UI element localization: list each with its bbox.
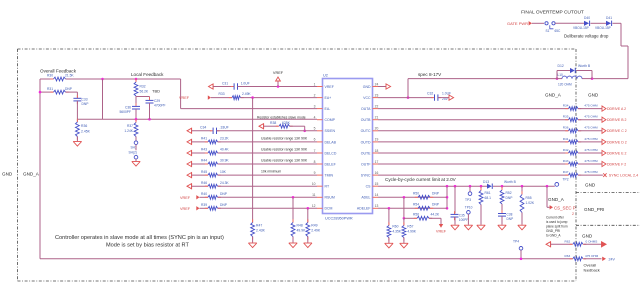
svg-text:Wurth B: Wurth B xyxy=(504,180,517,184)
svg-text:6: 6 xyxy=(314,138,316,142)
svg-text:475 OHM: 475 OHM xyxy=(584,104,598,108)
svg-text:SS/EN: SS/EN xyxy=(325,129,336,133)
svg-text:U2: U2 xyxy=(323,74,328,78)
svg-text:44.2K: 44.2K xyxy=(431,213,440,217)
svg-text:2.49K: 2.49K xyxy=(311,229,321,233)
svg-text:120 OHM: 120 OHM xyxy=(558,83,572,87)
svg-text:2: 2 xyxy=(572,212,574,216)
svg-text:GND: GND xyxy=(585,182,596,187)
svg-text:5600PF: 5600PF xyxy=(119,110,131,114)
svg-text:OUTA: OUTA xyxy=(361,107,371,111)
svg-text:C33: C33 xyxy=(82,98,88,102)
svg-text:VREF: VREF xyxy=(180,196,191,200)
svg-text:475 OHM: 475 OHM xyxy=(584,126,598,130)
svg-text:2.49K: 2.49K xyxy=(242,92,251,96)
svg-text:R61: R61 xyxy=(485,191,491,195)
svg-text:R37: R37 xyxy=(127,124,133,128)
svg-text:C36: C36 xyxy=(125,105,131,109)
svg-text:is used to jump: is used to jump xyxy=(546,220,568,224)
svg-text:VREF: VREF xyxy=(325,85,334,89)
svg-text:21: 21 xyxy=(375,116,379,120)
svg-text:GATE PWR: GATE PWR xyxy=(507,21,528,26)
svg-text:11: 11 xyxy=(312,193,316,197)
svg-text:Usable resistor range 13K 90K: Usable resistor range 13K 90K xyxy=(261,137,308,141)
svg-text:DDRIVE D 2: DDRIVE D 2 xyxy=(607,140,627,144)
svg-text:23: 23 xyxy=(375,93,379,97)
svg-text:Mode is set by bias resistor a: Mode is set by bias resistor at RT xyxy=(106,242,189,248)
svg-text:D40: D40 xyxy=(584,16,590,20)
svg-text:625K: 625K xyxy=(282,121,291,125)
svg-text:10k minimum: 10k minimum xyxy=(261,170,281,174)
svg-text:DNP: DNP xyxy=(220,192,228,196)
svg-text:R48: R48 xyxy=(297,223,303,227)
svg-text:56.2K: 56.2K xyxy=(140,90,149,94)
svg-text:Current offer: Current offer xyxy=(546,216,565,220)
svg-text:S1: S1 xyxy=(546,29,550,33)
svg-text:R36: R36 xyxy=(563,126,569,130)
svg-text:OUTF: OUTF xyxy=(361,162,371,166)
svg-text:475 OHM: 475 OHM xyxy=(584,170,598,174)
svg-text:R44: R44 xyxy=(201,159,207,163)
svg-text:SYNC: SYNC xyxy=(361,174,371,178)
svg-text:DNP: DNP xyxy=(506,196,514,200)
svg-text:R56: R56 xyxy=(413,213,419,217)
svg-text:24.3K: 24.3K xyxy=(220,181,229,185)
svg-text:EA+: EA+ xyxy=(325,96,332,100)
svg-text:DELCD: DELCD xyxy=(325,151,337,155)
svg-text:10K: 10K xyxy=(220,170,227,174)
svg-text:DDRIVE E 2: DDRIVE E 2 xyxy=(607,151,627,155)
svg-text:R34: R34 xyxy=(563,104,569,108)
svg-text:TP10: TP10 xyxy=(465,205,473,209)
svg-text:13: 13 xyxy=(375,204,379,208)
svg-text:FINAL OVERTEMP CUTOUT: FINAL OVERTEMP CUTOUT xyxy=(521,10,584,16)
svg-text:VBOU-15P: VBOU-15P xyxy=(595,26,611,30)
svg-text:VREF: VREF xyxy=(273,71,284,75)
svg-text:GND_A: GND_A xyxy=(548,197,565,202)
svg-text:Resistor establishes slave mod: Resistor establishes slave mode xyxy=(257,115,306,119)
svg-text:.33UF: .33UF xyxy=(220,125,229,129)
svg-text:R38: R38 xyxy=(270,121,276,125)
svg-text:R32: R32 xyxy=(140,85,146,89)
svg-text:475 OHM: 475 OHM xyxy=(584,137,598,141)
svg-text:475 OHM: 475 OHM xyxy=(584,148,598,152)
svg-text:GND: GND xyxy=(588,93,599,98)
svg-text:R42: R42 xyxy=(563,148,569,152)
svg-text:16: 16 xyxy=(375,171,379,175)
svg-text:12: 12 xyxy=(312,204,316,208)
svg-text:R41: R41 xyxy=(201,137,207,141)
svg-text:CS_SEC P: CS_SEC P xyxy=(554,205,576,210)
svg-text:40.4K: 40.4K xyxy=(220,148,229,152)
svg-text:19: 19 xyxy=(375,138,379,142)
svg-text:GND: GND xyxy=(2,172,13,177)
svg-text:R30: R30 xyxy=(47,73,53,77)
svg-text:17: 17 xyxy=(375,160,379,164)
svg-text:OUTC: OUTC xyxy=(361,129,371,133)
svg-text:DNP: DNP xyxy=(432,203,440,207)
svg-text:9: 9 xyxy=(314,171,316,175)
svg-text:30.9K: 30.9K xyxy=(220,159,229,163)
svg-text:GND: GND xyxy=(582,234,593,239)
svg-text:D12: D12 xyxy=(558,64,564,68)
svg-text:DDRIVE C 2: DDRIVE C 2 xyxy=(607,129,627,133)
svg-text:4700PF: 4700PF xyxy=(154,103,166,107)
svg-text:feedback: feedback xyxy=(584,267,600,272)
svg-text:R52: R52 xyxy=(506,191,512,195)
svg-text:TP2: TP2 xyxy=(563,178,569,182)
svg-text:7: 7 xyxy=(314,149,316,153)
svg-text:ADELEF: ADELEF xyxy=(357,207,371,211)
svg-text:VREF: VREF xyxy=(436,229,447,233)
svg-text:DCM: DCM xyxy=(325,207,333,211)
svg-text:Usable resistor range 13K 90K: Usable resistor range 13K 90K xyxy=(261,159,308,163)
svg-text:R47: R47 xyxy=(256,223,262,227)
svg-text:SYNC LOCAL 2,4: SYNC LOCAL 2,4 xyxy=(609,174,638,178)
svg-text:R43: R43 xyxy=(201,148,207,152)
svg-text:DNP: DNP xyxy=(65,87,73,91)
svg-text:3: 3 xyxy=(314,104,316,108)
svg-text:GND_A: GND_A xyxy=(23,172,40,177)
svg-text:C35: C35 xyxy=(459,213,465,217)
svg-text:C32: C32 xyxy=(427,92,433,96)
svg-text:R33: R33 xyxy=(219,92,225,96)
svg-text:GND_PRI: GND_PRI xyxy=(546,229,560,233)
svg-text:R63: R63 xyxy=(565,254,571,258)
svg-text:68.1: 68.1 xyxy=(485,196,492,200)
svg-text:21.5K: 21.5K xyxy=(65,73,74,77)
svg-text:Cycle-by-cycle current limit a: Cycle-by-cycle current limit at 2.0V xyxy=(385,177,457,182)
svg-text:Controller operates in slave m: Controller operates in slave mode at all… xyxy=(55,235,224,241)
svg-text:DDRIVE B 2: DDRIVE B 2 xyxy=(607,118,627,122)
svg-text:475 OHM: 475 OHM xyxy=(584,115,598,119)
svg-text:R54: R54 xyxy=(413,203,419,207)
svg-text:49.9K: 49.9K xyxy=(297,229,307,233)
svg-text:475 OHM: 475 OHM xyxy=(585,254,599,258)
svg-text:TP4: TP4 xyxy=(513,240,519,244)
svg-text:C34: C34 xyxy=(200,125,206,129)
svg-text:OUTB: OUTB xyxy=(361,118,371,122)
svg-text:8: 8 xyxy=(314,160,316,164)
svg-text:R57: R57 xyxy=(407,224,413,228)
svg-text:EA-: EA- xyxy=(325,107,332,111)
svg-text:to GND_A: to GND_A xyxy=(546,234,561,238)
svg-text:20: 20 xyxy=(375,127,379,131)
svg-text:DELEF: DELEF xyxy=(325,162,336,166)
svg-text:OUTE: OUTE xyxy=(361,151,371,155)
svg-text:R39: R39 xyxy=(201,203,207,207)
svg-text:Usable resistor range 13K 90K: Usable resistor range 13K 90K xyxy=(261,148,308,152)
svg-text:VCC: VCC xyxy=(363,96,371,100)
svg-text:R49: R49 xyxy=(311,223,317,227)
svg-text:TMIN: TMIN xyxy=(325,174,334,178)
svg-text:COMP: COMP xyxy=(325,118,336,122)
svg-text:GND_A: GND_A xyxy=(545,93,562,98)
svg-text:475 OHM: 475 OHM xyxy=(584,159,598,163)
svg-text:R46: R46 xyxy=(201,181,207,185)
svg-text:DNP: DNP xyxy=(220,203,228,207)
svg-text:R45: R45 xyxy=(201,170,207,174)
svg-text:VREF: VREF xyxy=(180,207,191,211)
svg-text:C29: C29 xyxy=(154,99,160,103)
svg-text:2: 2 xyxy=(314,93,316,97)
svg-text:R40: R40 xyxy=(201,192,207,196)
svg-text:DDRIVE A 2: DDRIVE A 2 xyxy=(607,107,626,111)
svg-text:TP3: TP3 xyxy=(465,198,471,202)
svg-text:R60: R60 xyxy=(392,224,398,228)
svg-text:CS: CS xyxy=(366,185,372,189)
svg-text:4.99K: 4.99K xyxy=(407,229,416,233)
svg-text:23.2K: 23.2K xyxy=(220,137,229,141)
svg-text:24: 24 xyxy=(375,82,379,86)
svg-text:GND_PRI: GND_PRI xyxy=(584,207,604,212)
svg-text:R47: R47 xyxy=(563,170,569,174)
svg-text:4.35K: 4.35K xyxy=(392,229,401,233)
svg-text:100PF: 100PF xyxy=(459,218,468,222)
svg-text:SH(2): SH(2) xyxy=(129,151,137,155)
svg-text:OUTD: OUTD xyxy=(361,140,371,144)
svg-text:R50: R50 xyxy=(413,192,419,196)
svg-text:spec 8-17V: spec 8-17V xyxy=(418,72,442,77)
svg-text:ADEL: ADEL xyxy=(361,196,370,200)
svg-text:GND: GND xyxy=(363,85,371,89)
svg-text:DNP: DNP xyxy=(432,192,440,196)
svg-text:UCC28950PWR: UCC28950PWR xyxy=(325,216,353,220)
svg-text:DNP: DNP xyxy=(507,217,514,221)
svg-text:VREF: VREF xyxy=(179,96,190,100)
svg-text:C38: C38 xyxy=(507,212,513,216)
svg-text:plane split from: plane split from xyxy=(546,225,568,229)
svg-text:RSUM: RSUM xyxy=(325,196,335,200)
svg-text:Wurth B: Wurth B xyxy=(578,64,591,68)
svg-text:DDRIVE F 2: DDRIVE F 2 xyxy=(607,162,626,166)
svg-text:15: 15 xyxy=(375,182,379,186)
svg-text:1.24K: 1.24K xyxy=(124,129,133,133)
svg-text:5: 5 xyxy=(314,127,316,131)
svg-text:1.0UF: 1.0UF xyxy=(241,82,250,86)
svg-text:TBD: TBD xyxy=(152,89,160,94)
svg-text:0 OHMS: 0 OHMS xyxy=(586,239,598,243)
svg-text:R55: R55 xyxy=(526,196,532,200)
svg-text:1: 1 xyxy=(314,82,316,86)
svg-text:65C: 65C xyxy=(555,29,562,33)
svg-text:2.43K: 2.43K xyxy=(256,229,266,233)
svg-text:Overall Feedback: Overall Feedback xyxy=(40,69,77,74)
svg-text:VBOU-15P: VBOU-15P xyxy=(573,26,589,30)
svg-text:L10: L10 xyxy=(558,73,564,77)
svg-text:R36: R36 xyxy=(81,124,87,128)
svg-text:R62: R62 xyxy=(565,239,571,243)
svg-text:Deliberate voltage drop: Deliberate voltage drop xyxy=(564,34,609,39)
svg-text:18: 18 xyxy=(375,149,379,153)
svg-text:R41: R41 xyxy=(563,137,569,141)
svg-text:22: 22 xyxy=(375,104,379,108)
svg-text:C31: C31 xyxy=(222,82,228,86)
svg-text:D13: D13 xyxy=(483,180,489,184)
svg-text:DNP: DNP xyxy=(82,102,90,106)
svg-text:1.02K: 1.02K xyxy=(526,201,535,205)
svg-text:D41: D41 xyxy=(606,16,612,20)
svg-text:2.45K: 2.45K xyxy=(81,129,91,133)
svg-text:R35: R35 xyxy=(563,115,569,119)
svg-text:R43: R43 xyxy=(563,159,569,163)
svg-text:Local Feedback: Local Feedback xyxy=(131,72,164,77)
svg-text:24V: 24V xyxy=(609,258,616,262)
svg-text:DELAB: DELAB xyxy=(325,140,337,144)
svg-text:10: 10 xyxy=(312,182,316,186)
svg-text:R31: R31 xyxy=(47,87,53,91)
svg-text:14: 14 xyxy=(375,193,379,197)
